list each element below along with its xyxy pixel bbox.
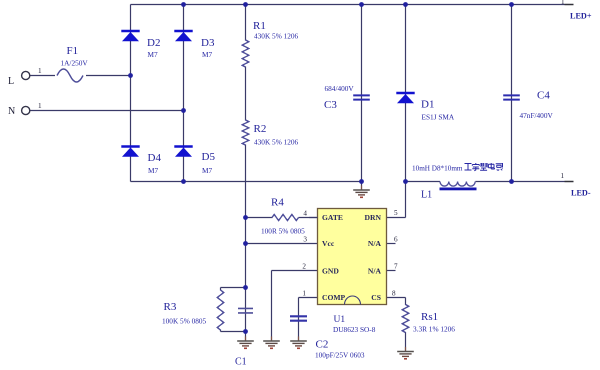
- svg-text:DRN: DRN: [365, 213, 382, 222]
- svg-text:D1: D1: [421, 99, 434, 111]
- svg-text:D4: D4: [148, 152, 162, 164]
- svg-text:M7: M7: [148, 166, 158, 175]
- svg-text:Vcc: Vcc: [322, 239, 335, 248]
- svg-text:Rs1: Rs1: [421, 311, 438, 323]
- svg-text:GATE: GATE: [322, 213, 343, 222]
- svg-text:1A/250V: 1A/250V: [61, 59, 89, 68]
- svg-text:100K 5% 0805: 100K 5% 0805: [162, 317, 207, 326]
- svg-text:1: 1: [561, 0, 565, 6]
- svg-text:R3: R3: [164, 301, 177, 313]
- svg-text:3.3R 1% 1206: 3.3R 1% 1206: [413, 325, 455, 334]
- svg-text:M7: M7: [202, 166, 212, 175]
- svg-text:M7: M7: [148, 50, 158, 59]
- svg-text:COMP: COMP: [322, 293, 346, 302]
- svg-text:6: 6: [394, 236, 398, 244]
- svg-text:10mH D8*10mm: 10mH D8*10mm: [412, 165, 463, 173]
- svg-text:M7: M7: [202, 50, 212, 59]
- svg-text:CS: CS: [371, 293, 381, 302]
- svg-text:ES1J SMA: ES1J SMA: [422, 113, 455, 122]
- svg-text:1: 1: [302, 290, 306, 298]
- svg-text:47nF/400V: 47nF/400V: [520, 111, 554, 120]
- svg-text:L: L: [8, 76, 14, 87]
- svg-text:C4: C4: [537, 90, 550, 102]
- svg-text:LED+: LED+: [570, 12, 592, 21]
- svg-text:D3: D3: [201, 37, 215, 49]
- svg-text:D2: D2: [147, 37, 160, 49]
- svg-text:N/A: N/A: [368, 266, 382, 275]
- svg-text:100pF/25V 0603: 100pF/25V 0603: [315, 351, 365, 360]
- svg-text:5: 5: [394, 209, 398, 217]
- svg-text:N: N: [8, 106, 15, 117]
- svg-text:C1: C1: [235, 357, 247, 368]
- svg-text:R2: R2: [254, 123, 267, 135]
- svg-text:8: 8: [392, 290, 396, 298]
- svg-text:L1: L1: [421, 190, 432, 201]
- svg-text:1: 1: [561, 172, 565, 180]
- svg-text:GND: GND: [322, 266, 339, 275]
- svg-text:N/A: N/A: [368, 239, 382, 248]
- svg-text:C3: C3: [324, 99, 337, 111]
- svg-text:3: 3: [303, 236, 307, 244]
- svg-text:4: 4: [303, 210, 307, 218]
- svg-text:DU8623 SO-8: DU8623 SO-8: [333, 325, 376, 334]
- svg-text:R1: R1: [253, 20, 266, 32]
- svg-text:1: 1: [38, 102, 42, 110]
- svg-text:100R 5% 0805: 100R 5% 0805: [261, 227, 305, 236]
- svg-text:D5: D5: [202, 151, 216, 163]
- svg-text:1: 1: [38, 67, 42, 75]
- svg-text:R4: R4: [271, 197, 284, 209]
- svg-text:U1: U1: [334, 315, 346, 325]
- svg-text:2: 2: [302, 263, 306, 271]
- svg-text:C2: C2: [316, 339, 329, 351]
- svg-text:430K 5% 1206: 430K 5% 1206: [254, 138, 299, 147]
- svg-text:430K 5% 1206: 430K 5% 1206: [254, 32, 299, 41]
- svg-text:684/400V: 684/400V: [325, 84, 355, 93]
- svg-text:LED-: LED-: [571, 189, 591, 198]
- svg-text:7: 7: [394, 263, 398, 271]
- svg-text:F1: F1: [67, 45, 79, 57]
